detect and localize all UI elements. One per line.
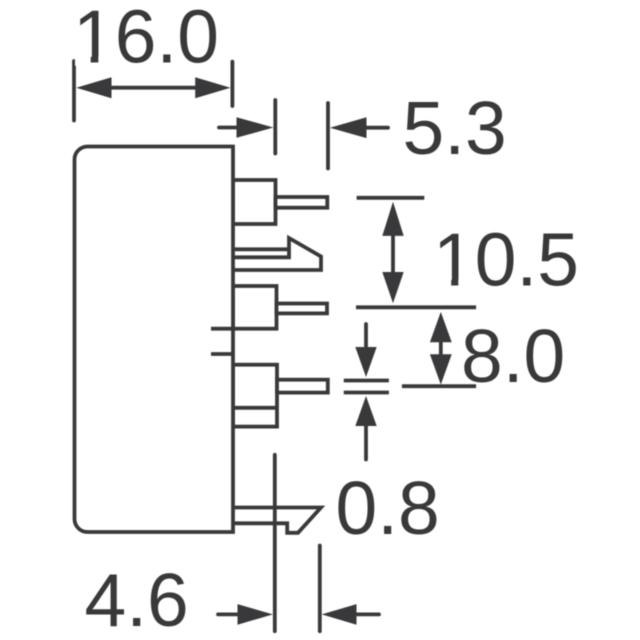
- pin 1 block: [233, 180, 276, 224]
- dim 4.6 extension line right: [318, 546, 322, 632]
- dim 8.0 arrowhead up: [430, 312, 452, 342]
- dim 5.3 extension line left: [273, 100, 277, 154]
- dim 10.5 arrowhead up: [382, 202, 403, 236]
- dim 8.0 dimension line: [439, 341, 443, 355]
- dim 0.8 reference bar bottom: [344, 391, 389, 395]
- pin 1 lead: [276, 197, 328, 208]
- dim 4.6 arrow left (points right): [218, 613, 244, 617]
- svg-text:5.3: 5.3: [403, 86, 507, 170]
- dim 8.0 reference bar bottom: [402, 384, 476, 388]
- dim 10.5 reference bar top: [357, 196, 425, 200]
- pin 4 lead: [277, 380, 328, 393]
- dim 0.8 arrow lower (points up): [364, 425, 368, 460]
- dim 16.0 dimension line: [100, 86, 206, 90]
- pin 3 lead: [277, 304, 328, 314]
- dim 8.0 arrowhead down: [430, 354, 452, 384]
- dim 4.6 arrow right (points left): [353, 613, 379, 617]
- dim 4.6 extension line left: [273, 455, 277, 631]
- svg-text:10.5: 10.5: [433, 218, 579, 302]
- dim 5.3 arrow right (points left): [362, 126, 388, 130]
- svg-text:0.8: 0.8: [336, 466, 440, 550]
- dim 10.5 dimension line: [391, 234, 395, 273]
- dim 16.0 arrowhead left: [76, 77, 111, 98]
- pin 5 bottom bent tab: [233, 508, 321, 533]
- dim 16.0 arrowhead right: [195, 77, 230, 98]
- pin 2 top edge: [233, 247, 289, 251]
- tick mark B: [211, 352, 233, 356]
- svg-text:16.0: 16.0: [73, 0, 219, 79]
- tick mark A: [211, 327, 234, 331]
- dim 0.8 reference bar top: [344, 379, 389, 383]
- dim 16.0 extension line left: [72, 61, 76, 121]
- pin 2 bent tab: [233, 238, 321, 270]
- pin 4 block divider: [233, 406, 277, 410]
- svg-text:4.6: 4.6: [85, 558, 189, 640]
- dim 10.5 / 8.0 shared reference bar: [356, 305, 476, 309]
- dim 0.8 arrow upper (points down): [364, 324, 368, 349]
- relay body outline: [75, 147, 234, 533]
- pin 3 block: [233, 286, 277, 329]
- dim 5.3 arrow left (points right): [219, 126, 242, 130]
- dim 5.3 extension line right: [326, 103, 330, 169]
- pin 4 block: [233, 365, 277, 427]
- dim 16.0 extension line right: [230, 62, 234, 106]
- dim 10.5 arrowhead down: [382, 272, 403, 303]
- svg-text:8.0: 8.0: [461, 314, 565, 398]
